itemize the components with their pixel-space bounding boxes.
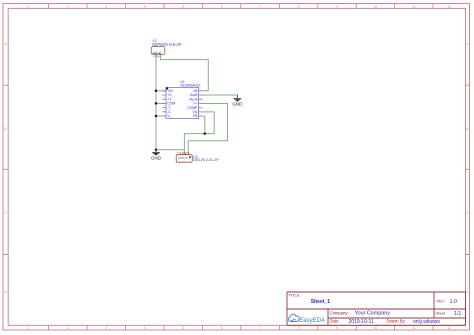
svg-text:GND: GND <box>232 102 243 107</box>
svg-text:Sheet:: Sheet: <box>436 312 446 316</box>
svg-text:only.wibowo: only.wibowo <box>413 319 440 325</box>
svg-text:CN063: CN063 <box>177 151 189 155</box>
wire: rail to U3 left pin <box>156 150 184 155</box>
svg-text:+VIN: +VIN <box>153 55 160 59</box>
junction dot rail row1 <box>155 90 158 93</box>
svg-text:10: 10 <box>374 4 378 8</box>
svg-text:8: 8 <box>298 4 300 8</box>
svg-text:Drawn By:: Drawn By: <box>387 319 406 324</box>
svg-text:7: 7 <box>259 326 261 330</box>
title block outline <box>287 292 466 325</box>
svg-text:Sheet_1: Sheet_1 <box>311 299 330 305</box>
svg-text:Date:: Date: <box>330 319 340 324</box>
svg-text:5: 5 <box>182 326 184 330</box>
U2 right pin stubs <box>199 91 203 116</box>
svg-text:FB: FB <box>193 114 198 118</box>
svg-text:10: 10 <box>374 326 378 330</box>
frame ticks top <box>49 4 433 9</box>
svg-text:V-: V- <box>167 114 170 118</box>
frame row letters left <box>4 42 7 294</box>
junction dot rail row7 <box>155 115 158 118</box>
wire: U2 right row6 to U3 left pin <box>184 112 214 150</box>
wire: rail tee to U2 pin row1 <box>156 90 166 92</box>
junction dot rail bottom <box>155 149 158 152</box>
svg-text:4: 4 <box>144 4 146 8</box>
svg-text:8: 8 <box>298 326 300 330</box>
frame ticks bottom <box>49 325 433 330</box>
connector U3 body <box>176 155 192 163</box>
svg-text:11: 11 <box>412 326 416 330</box>
svg-text:Company:: Company: <box>330 311 349 316</box>
svg-text:DB750G-9.5-2P: DB750G-9.5-2P <box>152 42 181 47</box>
IC U2 body <box>166 87 199 118</box>
svg-text:3: 3 <box>105 4 107 8</box>
svg-text:Your Company: Your Company <box>355 311 391 317</box>
svg-text:1/1: 1/1 <box>454 311 461 317</box>
wire: rail tee to U2 pin row7 <box>156 115 166 117</box>
ground flag bottom left <box>151 150 162 161</box>
svg-text:TITLE:: TITLE: <box>289 292 301 297</box>
svg-text:3: 3 <box>105 326 107 330</box>
U2 left pin names <box>167 89 175 118</box>
frame ticks left <box>3 85 8 254</box>
svg-text:12: 12 <box>447 326 451 330</box>
frame ticks right <box>466 85 470 254</box>
frame column numbers bottom <box>27 326 451 330</box>
svg-text:9: 9 <box>336 4 338 8</box>
svg-text:4: 4 <box>144 326 146 330</box>
svg-text:A: A <box>5 42 8 46</box>
svg-text:C: C <box>4 211 7 215</box>
frame row letters right <box>466 42 469 294</box>
wire: left ground rail from V1 pin1 down <box>155 55 157 150</box>
svg-text:DB125-2.81-2P: DB125-2.81-2P <box>193 158 219 162</box>
EasyEDA logo cloud <box>288 314 299 321</box>
U2 pin tip dots <box>162 90 202 116</box>
svg-text:6: 6 <box>221 326 223 330</box>
svg-text:AD698AQZ: AD698AQZ <box>180 83 201 88</box>
svg-text:6: 6 <box>221 4 223 8</box>
svg-text:1: 1 <box>27 4 29 8</box>
wire: U2 right row2 to GND flag <box>202 95 237 99</box>
svg-text:1.0: 1.0 <box>450 299 457 305</box>
svg-text:C: C <box>466 211 469 215</box>
junction dot rail row4 <box>155 102 158 105</box>
svg-text:2: 2 <box>67 4 69 8</box>
svg-text:9: 9 <box>336 326 338 330</box>
svg-text:PLPV-P: PLPV-P <box>178 156 187 160</box>
ground flag right of U2 <box>232 95 243 107</box>
frame column numbers top <box>27 4 451 8</box>
svg-text:11: 11 <box>412 4 416 8</box>
svg-text:A: A <box>466 42 469 46</box>
svg-text:12: 12 <box>447 4 451 8</box>
svg-text:2019-10-11: 2019-10-11 <box>349 319 374 325</box>
U2 left pin stubs <box>163 91 166 116</box>
connector V1 body <box>151 47 165 55</box>
svg-text:5: 5 <box>182 4 184 8</box>
junction dot FB-VO net <box>204 132 207 135</box>
wire: U2 right row7 down to junction <box>202 116 205 134</box>
svg-text:7: 7 <box>259 4 261 8</box>
svg-text:D: D <box>4 291 7 295</box>
svg-text:REV:: REV: <box>437 300 445 304</box>
svg-text:D: D <box>466 291 469 295</box>
wire: V1 pin2 to U2 right row1 <box>161 55 209 91</box>
wire: rail tee to U2 pin row4 <box>156 102 166 104</box>
U2 right pin names <box>187 89 198 118</box>
wire: U2 right row4 to U3 right pin <box>188 104 227 155</box>
svg-text:1: 1 <box>27 326 29 330</box>
svg-text:B: B <box>466 127 468 131</box>
svg-text:GND: GND <box>151 156 162 161</box>
svg-text:B: B <box>5 127 7 131</box>
svg-text:2: 2 <box>67 326 69 330</box>
svg-text:EasyEDA: EasyEDA <box>299 318 325 324</box>
